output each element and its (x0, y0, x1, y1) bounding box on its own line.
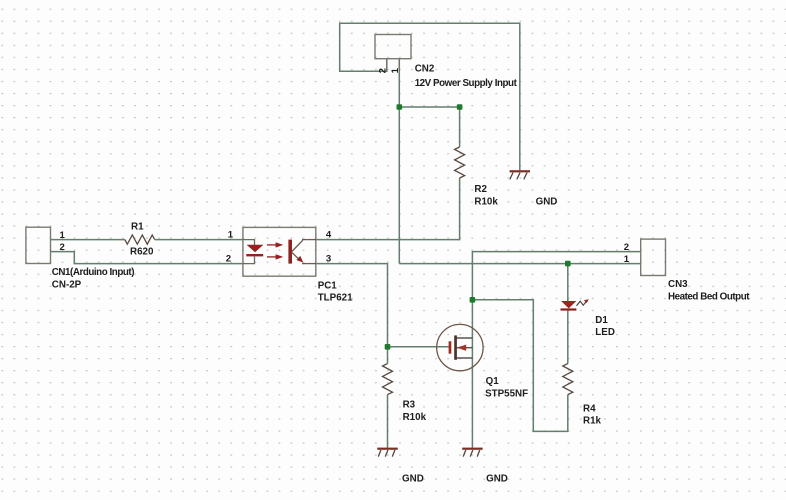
ground (Q1 source) (462, 448, 482, 457)
svg-text:4: 4 (326, 230, 332, 241)
PC1 phototransistor (288, 240, 316, 264)
svg-text:GND: GND (536, 196, 558, 207)
wire PC1 pin3 down to gate node (316, 264, 388, 364)
svg-text:R4: R4 (583, 403, 596, 414)
wire CN2 pin1 down to 12V rail (398, 59, 400, 264)
wire R1 to PC1 pin1 (155, 239, 243, 241)
LED D1 (561, 299, 589, 310)
transistor Q1 (437, 324, 483, 370)
wire branch to R2 top (399, 106, 459, 108)
svg-text:TLP621: TLP621 (318, 293, 353, 304)
svg-text:STP55NF: STP55NF (485, 389, 528, 400)
resistor R4 (563, 364, 573, 395)
junction node gate/R3 (385, 344, 391, 350)
wire R2 top lead (459, 107, 461, 147)
wire R3 bottom to ground (387, 395, 389, 448)
svg-text:2: 2 (378, 68, 389, 73)
wire CN3 pin2 to Q1 drain (472, 252, 640, 325)
wire Q1 drain-source column through transistor (471, 324, 473, 447)
svg-text:CN1(Arduino Input): CN1(Arduino Input) (52, 267, 134, 278)
svg-text:D1: D1 (595, 315, 608, 326)
connector CN2 (375, 35, 411, 59)
svg-text:PC1: PC1 (318, 281, 338, 292)
CN2 pin stub 2 (386, 59, 388, 71)
wire drain branch to R4 bottom (472, 300, 567, 432)
svg-text:R10k: R10k (474, 196, 498, 207)
svg-text:R2: R2 (474, 184, 487, 195)
svg-text:GND: GND (402, 474, 424, 485)
svg-text:1: 1 (624, 254, 630, 265)
svg-text:Heated Bed Output: Heated Bed Output (668, 292, 750, 303)
wire CN1 pin1 to R1 (51, 239, 125, 241)
svg-text:3: 3 (326, 254, 331, 265)
svg-text:GND: GND (486, 474, 508, 485)
svg-text:2: 2 (624, 242, 629, 253)
svg-text:2: 2 (226, 254, 231, 265)
CN2 pin stub 1 (398, 59, 400, 71)
junction node D1 anode (565, 261, 571, 267)
junction node Q1 drain (470, 297, 476, 303)
ground (R3) (377, 448, 397, 457)
svg-text:R10k: R10k (403, 412, 427, 423)
junction node R2 top (457, 104, 463, 110)
wire CN1 pin2 to PC1 pin2 (51, 252, 244, 264)
resistor R2 (455, 147, 465, 178)
svg-text:1: 1 (228, 230, 234, 241)
svg-text:LED: LED (595, 327, 615, 338)
connector CN1 (26, 227, 51, 263)
wire 12V rail to CN3 pin1 (399, 263, 640, 265)
svg-text:1: 1 (390, 67, 401, 73)
ground (12V supply) (510, 170, 530, 179)
wire CN2 pin2 to GND (left, top and right run) (340, 23, 520, 170)
wire D1 anode lead (567, 264, 569, 301)
svg-text:CN-2P: CN-2P (52, 280, 82, 291)
svg-text:CN2: CN2 (415, 64, 435, 75)
PC1 light arrows (267, 242, 283, 259)
optocoupler PC1 body (243, 227, 316, 276)
svg-text:R1k: R1k (583, 416, 602, 427)
resistor R1 (125, 235, 155, 244)
connector CN3 (641, 239, 666, 275)
wire gate node to Q1 gate (388, 346, 449, 348)
svg-text:R620: R620 (130, 246, 154, 257)
svg-text:R1: R1 (131, 222, 144, 233)
junction node 12V at CN2 column (397, 104, 403, 110)
wire D1 cathode to R4 top (567, 311, 569, 364)
svg-text:12V Power Supply Input: 12V Power Supply Input (415, 78, 518, 89)
svg-text:Q1: Q1 (486, 376, 500, 387)
svg-text:CN3: CN3 (668, 279, 688, 290)
wire R2 bottom to PC1 pin4 (316, 178, 460, 240)
resistor R3 (383, 364, 393, 395)
PC1 internal LED (243, 240, 263, 264)
svg-text:R3: R3 (403, 400, 416, 411)
